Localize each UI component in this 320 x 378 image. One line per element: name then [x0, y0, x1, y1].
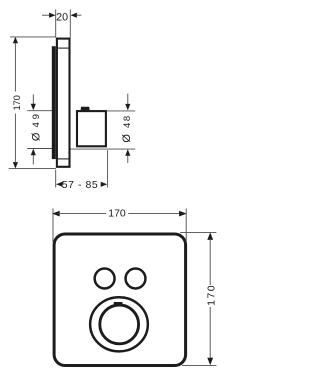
extension line knob top (dim 48) [107, 110, 136, 112]
extension line 170 top-left (front) [52, 209, 54, 243]
dimension 49 upper arrow [32, 94, 34, 104]
dimension 170 top arrow left [52, 211, 60, 217]
escutcheon plate outline (side) [57, 39, 70, 167]
thermostat knob outer ring [90, 297, 148, 351]
dimension 48 upper arrow [127, 94, 129, 105]
dimension 170 top line left segment [58, 213, 106, 215]
svg-text:170: 170 [108, 207, 126, 219]
extension line plate front (dim 20 right) [69, 10, 71, 38]
dimension 57-85 left arrow [56, 182, 63, 187]
svg-text:48: 48 [122, 116, 133, 128]
svg-text:170: 170 [12, 95, 23, 111]
dimension 170 right line lower segment [209, 307, 211, 359]
dimension 20 right arrow [70, 13, 77, 18]
extension line diameter 49 top [27, 110, 52, 112]
dimension 170 lower arrow [14, 114, 16, 163]
svg-text:Ø: Ø [30, 132, 42, 141]
extension line diameter 49 bottom [27, 148, 52, 150]
dimension 48 lower arrow [125, 149, 130, 156]
dimension 170 right arrow top [207, 232, 213, 240]
svg-text:170: 170 [206, 285, 218, 306]
extension line 170 right-bottom (front) [182, 364, 216, 366]
dimension 170 top line right segment [128, 213, 180, 215]
extension line 57-85 right [107, 150, 109, 187]
extension line knob bottom / neck [71, 148, 136, 150]
extension line 170 top [10, 36, 56, 38]
svg-text:Ø: Ø [121, 134, 133, 143]
select button on knob top [81, 107, 90, 112]
handle knob body (side) [77, 111, 106, 146]
dimension 57-85 right arrow [101, 182, 108, 187]
plate bottom step line [56, 158, 69, 160]
extension line 170 right-top (front) [180, 232, 216, 234]
escutcheon plate front (rounded square) [54, 234, 186, 366]
button circle right [126, 269, 146, 289]
extension line 170 bottom [9, 168, 56, 170]
extension line wall face (dim 20 left) [55, 10, 57, 38]
dimension 170 right arrow bottom [207, 358, 213, 366]
dimension 170 right line upper segment [209, 238, 211, 285]
dimension 170 top arrow right [179, 211, 187, 217]
flange bar behind wall (filled) [52, 46, 56, 159]
svg-text:57 - 85: 57 - 85 [62, 179, 98, 191]
svg-text:20: 20 [56, 11, 68, 23]
button circle left [95, 269, 115, 289]
dimension 170 upper arrow [13, 37, 18, 44]
extension line 170 top-right (front) [185, 209, 187, 243]
plate top step line [56, 47, 69, 49]
dimension 20 left arrow [49, 13, 56, 18]
knob index mark [114, 302, 123, 305]
thermostat knob inner ring [100, 305, 139, 344]
dimension 49 lower arrow [31, 149, 36, 156]
extension line 57-85 left [55, 170, 57, 188]
